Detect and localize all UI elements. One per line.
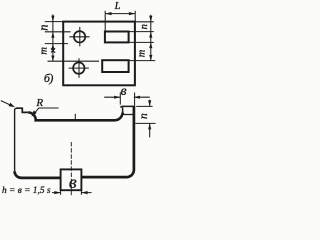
radius R leader — [34, 108, 59, 114]
left dim arrows n — [51, 16, 54, 38]
right dim arrows m — [149, 42, 152, 60]
dim в (tab) extension lines — [61, 191, 82, 195]
dimension L line — [105, 13, 135, 15]
svg-text:n: n — [138, 113, 150, 119]
hole 1 circle — [74, 31, 85, 42]
profile left edge — [15, 108, 17, 171]
dim n (profile right) arrows — [149, 100, 151, 138]
svg-text:m: m — [137, 49, 148, 57]
profile lip (top-left) — [16, 108, 28, 112]
dimension L extension lines — [105, 11, 135, 31]
dimension L arrows — [105, 12, 135, 15]
left extension line slot2 top — [48, 60, 100, 62]
svg-text:m: m — [38, 47, 49, 55]
left extension line top edge — [45, 21, 63, 23]
left dim arrows m — [51, 44, 54, 62]
svg-text:в: в — [121, 84, 127, 99]
profile web top with bend radii — [28, 112, 122, 120]
dim в (flange) arrows — [104, 96, 150, 98]
web tick — [74, 114, 76, 119]
svg-text:R: R — [35, 97, 43, 109]
slot 2 — [102, 60, 128, 72]
svg-text:n: n — [36, 25, 50, 31]
plate outline (top view б) — [63, 22, 135, 86]
slot 1 — [105, 32, 129, 43]
right dim arrows n — [149, 16, 152, 38]
dim n (profile right) extension lines — [135, 106, 155, 123]
profile right edge — [81, 106, 134, 177]
hole 1 center lines — [69, 27, 89, 47]
left extension line slot1 bottom — [45, 43, 68, 45]
hole 2 center lines — [69, 58, 89, 77]
dim в (tab) arrows — [52, 192, 92, 194]
external corner arrow — [1, 101, 12, 106]
svg-text:б): б) — [44, 71, 53, 85]
right extension line slot2 top — [128, 60, 156, 62]
profile inner flange lines — [123, 111, 134, 115]
right extension line slot1 bottom — [129, 41, 154, 43]
left dimension line — [52, 14, 54, 61]
profile flange top — [121, 106, 134, 107]
left extension line slot1 top — [45, 31, 71, 33]
svg-text:h = в = 1,5 s: h = в = 1,5 s — [2, 186, 51, 196]
right dimension line — [150, 15, 152, 61]
profile riser — [122, 107, 124, 114]
tab centerline — [70, 142, 72, 196]
dim в (flange) extension lines — [120, 93, 134, 106]
svg-text:L: L — [114, 1, 121, 12]
right extension line top edge — [135, 21, 154, 23]
profile tab (lug crossing web) — [61, 169, 82, 190]
slash artifact on left dim line — [51, 48, 55, 52]
svg-text:n: n — [139, 24, 150, 29]
right extension line slot1 top — [129, 31, 154, 33]
hole 2 circle — [73, 62, 84, 73]
svg-text:в: в — [69, 172, 77, 192]
profile bottom edge left — [15, 171, 61, 178]
